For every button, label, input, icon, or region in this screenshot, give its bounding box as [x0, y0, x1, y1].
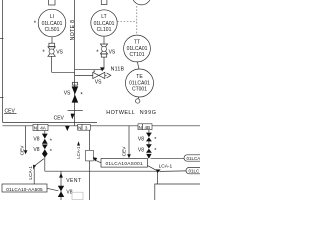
svg-text:CL501: CL501	[45, 27, 60, 33]
svg-text:01LCA10AS001: 01LCA10AS001	[105, 161, 142, 167]
svg-text:01LCA10-AA505: 01LCA10-AA505	[6, 187, 43, 192]
svg-text:VS: VS	[56, 49, 63, 55]
svg-text:CT101: CT101	[129, 52, 144, 58]
svg-text:CEV: CEV	[121, 146, 127, 157]
svg-text:VENT: VENT	[66, 178, 81, 184]
svg-text:3: 3	[85, 125, 88, 130]
svg-text:TT: TT	[134, 40, 140, 46]
svg-text:4A: 4A	[40, 126, 47, 131]
svg-text:01LCA: 01LCA	[187, 156, 201, 161]
svg-text:LCA-1: LCA-1	[159, 164, 173, 170]
svg-text:N: N	[34, 126, 37, 131]
svg-text:V8: V8	[33, 136, 39, 142]
svg-text:N11B: N11B	[111, 67, 125, 73]
svg-text:01LC: 01LC	[189, 169, 201, 174]
svg-text:HOTWELL: HOTWELL	[106, 110, 135, 116]
svg-text:N: N	[78, 125, 81, 130]
svg-text:CL101: CL101	[97, 27, 112, 33]
svg-text:4B: 4B	[144, 125, 150, 130]
svg-text:VS: VS	[95, 79, 102, 85]
svg-text:V8: V8	[138, 148, 144, 154]
svg-text:CT001: CT001	[132, 87, 147, 93]
svg-text:LI: LI	[50, 14, 54, 20]
svg-text:LCA-1: LCA-1	[28, 166, 34, 180]
svg-text:N99G: N99G	[140, 110, 157, 116]
svg-text:LCA-1: LCA-1	[76, 146, 81, 159]
svg-text:VS: VS	[64, 90, 71, 96]
svg-text:CEV: CEV	[54, 116, 65, 122]
svg-text:VS: VS	[109, 49, 116, 55]
svg-text:TE: TE	[136, 74, 143, 80]
svg-text:V8: V8	[138, 136, 144, 142]
svg-text:V8: V8	[33, 147, 39, 153]
svg-text:NOTE 8: NOTE 8	[70, 20, 76, 41]
svg-text:N: N	[139, 125, 142, 130]
svg-text:LT: LT	[101, 14, 106, 20]
svg-text:CEV: CEV	[19, 145, 25, 156]
